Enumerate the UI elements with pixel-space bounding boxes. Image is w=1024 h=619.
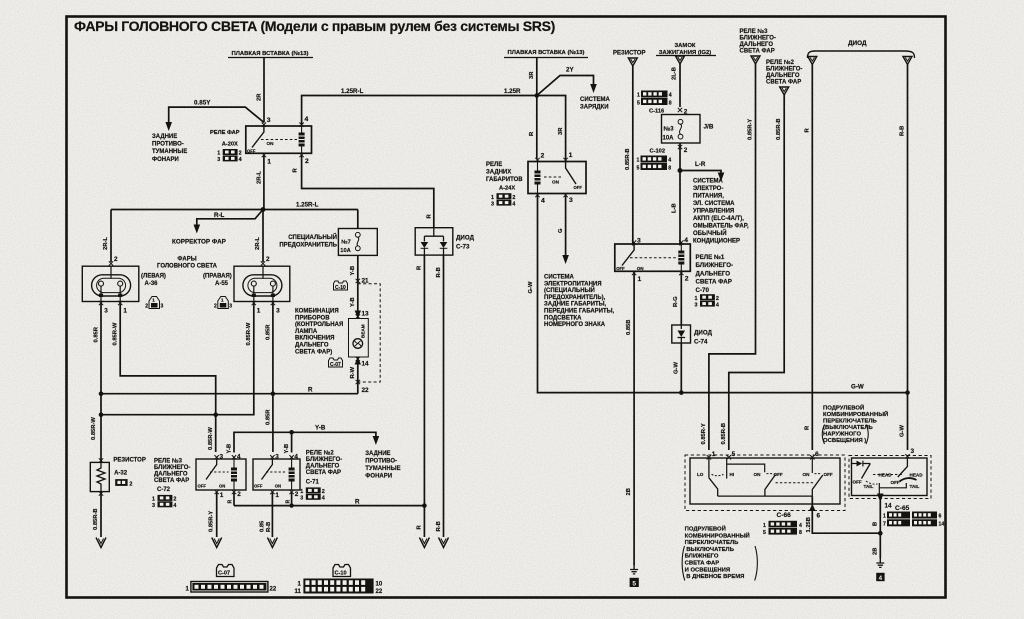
fusible link relay no3 label top [740,28,776,64]
diode C-74 [672,325,713,346]
connector icon C-72 [152,495,176,509]
svg-text:1: 1 [220,492,224,499]
wire 1.25R-L pin4 to junction [302,88,537,125]
wire 0.85R-Y fuse to switch pin1 [701,64,756,450]
ignition switch IG2 label [656,43,716,64]
label RELE no1 C-70 [696,254,734,294]
svg-text:OFF: OFF [853,480,862,485]
svg-text:ЗАРЯДКИ: ЗАРЯДКИ [580,105,609,111]
svg-text:4: 4 [684,237,688,244]
pin 2 relay no1 [679,271,689,283]
svg-text:ON: ON [275,483,281,488]
svg-text:ПРЕДОХРАНИТЕЛЬ),: ПРЕДОХРАНИТЕЛЬ), [544,295,606,301]
svg-text:4: 4 [512,201,515,207]
svg-text:22: 22 [270,587,277,593]
svg-text:ВЫКЛЮЧАТЕЛЬ: ВЫКЛЮЧАТЕЛЬ [686,547,735,553]
svg-text:22: 22 [376,589,383,595]
pin 3 relay A-20X [262,117,271,127]
svg-text:БЛИЖНЕГО-: БЛИЖНЕГО- [696,262,734,269]
svg-text:4: 4 [541,198,545,205]
svg-text:0.85R-Y: 0.85R-Y [701,423,707,444]
label fary golovnogo sveta [141,257,218,288]
resistor A-32 [90,458,109,495]
text power supply system left [544,275,615,329]
text rear fog lamps left [152,134,187,163]
pin 14 lamp bottom [356,357,369,368]
svg-text:5: 5 [732,451,736,458]
svg-text:A-24X: A-24X [499,186,515,192]
svg-text:1.25B: 1.25B [806,517,812,532]
wire 1.25B switch pin6 down [806,496,880,533]
headlamp left A-36 [82,266,139,301]
svg-text:0.85R-B: 0.85R-B [776,118,782,140]
svg-text:ФАРЫ: ФАРЫ [177,257,196,263]
node B junction [878,531,883,536]
svg-text:L-B: L-B [672,203,678,213]
svg-text:ЛАМПА: ЛАМПА [295,329,318,335]
svg-text:OFF: OFF [824,472,833,477]
node G-W R-B junction [905,390,910,395]
switch left contacts dimmer [697,458,812,496]
svg-text:4: 4 [879,575,883,582]
svg-text:2B: 2B [626,488,632,495]
svg-text:4: 4 [716,302,719,308]
svg-text:ON: ON [754,472,762,477]
svg-text:1: 1 [267,158,271,165]
svg-text:ON: ON [552,180,560,185]
diode bracket label top right [808,40,915,65]
svg-text:0.85R-B: 0.85R-B [93,508,99,530]
svg-text:УПРАВЛЕНИЯ: УПРАВЛЕНИЯ [693,209,734,215]
svg-text:В ДНЕВНОЕ ВРЕМЯ: В ДНЕВНОЕ ВРЕМЯ [686,574,744,580]
wire R-L branch to corrector [194,210,264,234]
svg-text:БЛИЖНЕГО-: БЛИЖНЕГО- [154,465,190,471]
svg-text:ДИОД: ДИОД [456,235,475,242]
wire 0.85R-B resistor to arrow [93,492,106,548]
bus Y-B relays to rear fog arrow [226,425,379,454]
connector C-116 [637,91,672,115]
svg-text:1.25R: 1.25R [504,88,521,95]
svg-text:3: 3 [267,117,271,124]
svg-text:OFF: OFF [891,480,900,485]
bus jog to relay no3 pin3 [99,303,254,417]
relay no2 pins [270,454,299,500]
pin 14 switch right bottom [873,494,893,532]
svg-text:1: 1 [152,298,155,303]
svg-text:J/B: J/B [704,124,714,131]
wire 2B to ground 4 [873,533,885,582]
wire L-R branch to systems [680,161,724,182]
svg-text:4: 4 [237,454,241,461]
connector badge A-36 [145,297,163,310]
svg-text:4: 4 [294,454,298,461]
svg-text:ON: ON [637,266,645,271]
wire R-W pin14 to pin22 [350,357,369,394]
svg-text:R-B: R-B [436,521,442,531]
svg-text:КОНДИЦИОНЕР: КОНДИЦИОНЕР [693,239,740,245]
svg-text:Y-B: Y-B [350,266,356,276]
bus R pin22 to left [99,387,358,397]
svg-text:OFF: OFF [574,185,583,190]
pin 6 switch [810,451,819,459]
svg-text:C-116: C-116 [649,109,664,115]
svg-text:OFF: OFF [247,148,256,153]
svg-text:(ЛЕВАЯ): (ЛЕВАЯ) [141,274,166,280]
pin 3 relay no1 [632,238,641,245]
svg-text:ОМЫВАТЕЛЬ ФАР,: ОМЫВАТЕЛЬ ФАР, [693,224,749,230]
headlamp right pins 1 and 3 [252,301,281,315]
svg-text:РЕЛЕ №1: РЕЛЕ №1 [696,254,725,261]
svg-text:1: 1 [883,514,886,520]
svg-text:OFF: OFF [198,484,207,489]
svg-text:БЛИЖНЕГО-: БЛИЖНЕГО- [766,67,802,73]
switch right contacts lighting [803,458,833,496]
svg-text:A-36: A-36 [145,281,159,287]
svg-text:0.85R-W: 0.85R-W [91,417,97,440]
pin 3 relay A-24X [563,193,573,204]
svg-text:22: 22 [362,387,370,394]
svg-text:TAIL: TAIL [910,484,920,489]
label pravaya A-55 [203,274,232,288]
svg-text:0.85R-W: 0.85R-W [208,427,214,450]
label RELE FAR A-20X [210,130,240,147]
svg-text:C-66: C-66 [777,512,792,519]
text podrulevoy switch outer lighting [823,404,888,445]
svg-text:ЗАДНИЕ: ЗАДНИЕ [152,134,177,140]
connector icon A-20X 1-2/3-4 [217,149,241,163]
svg-text:СВЕТА ФАР: СВЕТА ФАР [154,478,189,484]
svg-text:C-72: C-72 [157,487,171,493]
svg-text:СПЕЦИАЛЬНЫЙ: СПЕЦИАЛЬНЫЙ [288,233,337,241]
svg-text:LO: LO [697,472,704,477]
wire R-B diode bracket down [900,65,908,393]
svg-text:3: 3 [569,197,573,204]
svg-text:ФОНАРИ: ФОНАРИ [152,157,179,163]
svg-text:НОМЕРНОГО ЗНАКА: НОМЕРНОГО ЗНАКА [544,322,606,328]
pin 1 relay A-20X [262,153,272,166]
text kombinaciya priborov [295,309,343,356]
pin 4 relay no1 [679,237,688,245]
svg-text:R-B: R-B [266,522,272,532]
relay no3 box [196,459,246,490]
svg-text:C-71: C-71 [306,480,320,486]
parens lower switch label [682,546,757,581]
svg-text:13: 13 [362,311,370,318]
svg-text:Y-B: Y-B [284,444,290,454]
svg-text:G: G [558,228,564,233]
svg-text:ОБЫЧНЫЙ: ОБЫЧНЫЙ [693,229,727,237]
svg-text:10A: 10A [340,248,350,254]
svg-text:1: 1 [638,276,642,283]
combination switch right dashed box [849,456,931,499]
svg-text:ДИОД: ДИОД [694,330,713,337]
svg-text:4: 4 [669,93,672,99]
svg-text:G-W: G-W [851,384,864,391]
svg-text:1: 1 [221,298,224,303]
svg-text:1: 1 [695,296,698,302]
svg-text:2R-L: 2R-L [255,237,261,250]
svg-text:2R: 2R [257,93,263,101]
svg-text:7: 7 [883,521,886,527]
svg-text:ЗАДНИЕ ГАБАРИТЫ,: ЗАДНИЕ ГАБАРИТЫ, [544,302,607,308]
svg-text:СВЕТА ФАР: СВЕТА ФАР [740,49,775,55]
svg-text:СВЕТА ФАР: СВЕТА ФАР [766,80,801,86]
svg-text:0.85R: 0.85R [265,324,271,340]
connector badge C-07 bottom [217,565,235,577]
svg-text:ПОДСВЕТКА: ПОДСВЕТКА [544,315,582,321]
svg-text:TAIL: TAIL [864,484,874,489]
svg-text:ЗАДНИЕ: ЗАДНИЕ [365,451,390,457]
special fuse no7 10A [338,210,377,256]
svg-text:1.25R-L: 1.25R-L [296,202,319,209]
svg-text:1: 1 [637,158,640,164]
svg-text:1: 1 [152,497,155,503]
svg-text:КОМБИНИРОВАННЫЙ: КОМБИНИРОВАННЫЙ [823,410,888,418]
pin 1 switch [707,451,716,459]
svg-text:3: 3 [911,448,915,455]
svg-text:R-G: R-G [673,296,679,307]
svg-text:BEAM: BEAM [361,324,366,338]
svg-text:РЕЗИСТОР: РЕЗИСТОР [113,458,145,464]
svg-text:ПРОТИВО-: ПРОТИВО- [365,459,397,465]
svg-text:0.85R-Y: 0.85R-Y [209,511,215,532]
svg-text:2Y: 2Y [566,67,574,74]
svg-text:№3: №3 [664,126,675,133]
svg-text:РЕЛЕ №3: РЕЛЕ №3 [154,458,183,465]
wire R-G relay no1 pin2 to diode C-74 [673,273,681,325]
svg-text:HI: HI [730,472,735,477]
svg-text:8: 8 [799,530,802,536]
svg-text:№7: №7 [341,240,351,246]
svg-text:6: 6 [817,513,821,520]
svg-text:ФАРЫ ГОЛОВНОГО СВЕТА (Модели с: ФАРЫ ГОЛОВНОГО СВЕТА (Модели с правым ру… [74,18,555,34]
svg-text:СВЕТА ФАР): СВЕТА ФАР) [295,349,332,355]
svg-text:(ПРАВАЯ): (ПРАВАЯ) [203,274,232,280]
svg-text:1: 1 [569,152,573,159]
svg-text:ЭЛЕКТРО-: ЭЛЕКТРО- [693,186,723,192]
bus R lower [234,499,427,508]
svg-text:2: 2 [129,481,132,487]
svg-text:0.85B: 0.85B [626,320,632,335]
relay A-24X tail lamps relay box [528,162,586,194]
wire R pin2 to diode C-73 [293,155,434,228]
svg-text:C-10: C-10 [335,285,346,291]
svg-text:СВЕТА ФАР: СВЕТА ФАР [685,561,720,567]
svg-text:3R: 3R [558,127,564,135]
svg-text:C-10: C-10 [335,571,347,577]
label RELE ZADNIH GABARITOV A-24X [486,162,523,192]
svg-text:ДАЛЬНЕГО: ДАЛЬНЕГО [766,73,800,79]
wire 2R-L node to headlamp right pin2 [255,210,270,266]
svg-text:БЛИЖНЕГО-: БЛИЖНЕГО- [306,457,342,463]
svg-text:ПЛАВКАЯ ВСТАВКА (№13): ПЛАВКАЯ ВСТАВКА (№13) [508,49,585,56]
wire G-W diode C-74 to bus [673,343,683,395]
svg-text:ЭЛЕКТРОПИТАНИЯ: ЭЛЕКТРОПИТАНИЯ [544,281,602,287]
svg-text:0.85R-W: 0.85R-W [246,322,252,345]
svg-text:3: 3 [695,302,698,308]
svg-text:1: 1 [257,308,261,315]
connector badge C-07 small [329,358,343,368]
connector C-10 rows [295,579,383,596]
pin 2 above fuse box [678,108,688,116]
svg-text:3: 3 [637,238,641,245]
label RELE no2 C-71 [306,450,342,486]
wire 0.85R headlamp right pin3 to relay no2 pin3 [265,303,273,452]
svg-text:И ОСВЕЩЕНИЯ: И ОСВЕЩЕНИЯ [685,567,731,573]
svg-text:РЕЛЕ №3: РЕЛЕ №3 [740,28,769,35]
svg-text:2: 2 [173,497,176,503]
svg-text:ДАЛЬНЕГО: ДАЛЬНЕГО [154,472,188,478]
svg-text:R-L: R-L [214,212,225,219]
svg-text:(ВЫКЛЮЧАТЕЛЬ: (ВЫКЛЮЧАТЕЛЬ [823,425,873,431]
svg-text:2: 2 [266,256,270,263]
svg-text:2: 2 [716,296,719,302]
svg-text:3: 3 [229,304,232,310]
svg-text:С-74: С-74 [694,339,708,346]
svg-text:ДАЛЬНЕГО: ДАЛЬНЕГО [696,270,731,277]
svg-text:3: 3 [276,308,280,315]
svg-text:2: 2 [114,256,118,263]
svg-text:НАРУЖНОГО: НАРУЖНОГО [823,432,861,438]
switch mid contacts passing [754,472,814,496]
svg-text:ПЕРЕКЛЮЧАТЕЛЬ: ПЕРЕКЛЮЧАТЕЛЬ [685,540,740,546]
svg-text:С-70: С-70 [696,287,710,294]
text podrulevoy switch low beam drl [685,525,750,581]
svg-text:ПЕРЕКЛЮЧАТЕЛЬ: ПЕРЕКЛЮЧАТЕЛЬ [823,419,878,425]
svg-text:0.85R: 0.85R [265,409,271,425]
svg-text:3: 3 [220,454,224,461]
svg-text:ФОНАРИ: ФОНАРИ [365,474,392,480]
svg-text:0.85R-B: 0.85R-B [721,423,727,445]
wire 3R fuse13 to junction [504,58,537,96]
fusible link label no.13 middle [504,49,588,58]
svg-text:1: 1 [217,151,220,157]
svg-text:ПРИБОРОВ: ПРИБОРОВ [295,315,330,321]
wire G relay A-24X pin3 arrow down [558,195,569,264]
svg-text:2: 2 [145,304,148,310]
relay no2 box [253,459,300,490]
text rear fog lamps right [365,451,400,480]
svg-text:Y-B: Y-B [315,425,326,432]
wire 2R fuse13 to relay A-20X pin3 [257,58,265,123]
svg-text:(СПЕЦИАЛЬНЫЙ: (СПЕЦИАЛЬНЫЙ [544,286,595,294]
pin 5 switch [727,451,736,459]
ground 5 [630,564,639,588]
pin 1 relay no1 [632,271,642,283]
relay no1 low-high beam box [615,244,691,271]
connector icon C-71 [300,487,324,501]
svg-text:5: 5 [637,166,640,172]
svg-text:A-55: A-55 [215,281,229,287]
svg-text:ДИОД: ДИОД [848,40,867,47]
svg-text:КОМБИНИРОВАННЫЙ: КОМБИНИРОВАННЫЙ [685,531,750,539]
connector C-66 blocks [763,521,802,536]
wire 0.85R-B resistor to relay no1 pin3 [625,66,633,246]
svg-text:РЕЛЕ ФАР: РЕЛЕ ФАР [210,130,240,136]
wire 0.85Y branch to rear fog lamps [165,100,264,131]
svg-text:R-B: R-B [900,126,906,136]
bus 1.25R-L node to fuse no7 [111,202,358,212]
svg-text:HEAD: HEAD [910,472,924,477]
svg-text:ВКЛЮЧЕНИЯ: ВКЛЮЧЕНИЯ [295,336,335,342]
wire 0.85R headlamp left pin3 down [91,303,101,462]
connector badge C-10 small [334,281,348,291]
svg-text:ON: ON [267,141,275,146]
svg-text:ЭЛ. СИСТЕМА: ЭЛ. СИСТЕМА [693,201,735,207]
svg-text:1: 1 [275,492,279,499]
wire R relay no3 pin2 to bus [228,492,234,506]
svg-text:КОМБИНАЦИЯ: КОМБИНАЦИЯ [295,309,339,315]
svg-text:ПЕРЕДНИЕ ГАБАРИТЫ,: ПЕРЕДНИЕ ГАБАРИТЫ, [544,309,615,315]
svg-text:ON: ON [803,472,811,477]
svg-text:2L-B: 2L-B [672,67,678,80]
svg-text:8: 8 [668,166,671,172]
svg-text:14: 14 [939,521,945,527]
combination switch right solid box [852,458,928,496]
svg-text:C-07: C-07 [330,362,341,368]
svg-text:R-B: R-B [436,267,442,277]
wire 2Y branch to charging system [537,67,597,96]
svg-text:B: B [873,522,879,526]
svg-text:0.85R-W: 0.85R-W [113,322,119,345]
svg-text:2: 2 [541,153,545,160]
wire R junction to relay A-24X pin2 [529,96,537,160]
wire R-B diode C-73 right leg to arrow [436,255,449,547]
text power systems right column [693,179,749,245]
wire Y-B fuse no7 to pin21 [350,255,369,284]
svg-text:3: 3 [300,496,303,502]
connector C-07 row [186,582,277,593]
wire 0.85B relay no1 pin1 down to ground 5 [626,273,634,565]
svg-text:4: 4 [173,503,176,509]
svg-text:10: 10 [376,582,383,588]
svg-text:АКПП (ELC-4A/T),: АКПП (ELC-4A/T), [693,216,744,222]
pin 4 relay A-20X [299,116,308,127]
pin 4 relay A-24X [535,193,545,205]
svg-text:0.85R: 0.85R [93,326,99,342]
svg-text:ГАБАРИТОВ: ГАБАРИТОВ [486,177,523,183]
text charging system [580,97,610,111]
label RELE no3 C-72 [154,458,190,494]
wire 2R-L pin1 down to node [256,155,264,210]
svg-text:2R-L: 2R-L [103,237,109,250]
wire 0.85R-W headlamp left pin1 jog down [113,303,216,452]
svg-text:ДАЛЬНЕГО: ДАЛЬНЕГО [740,42,774,48]
svg-text:2: 2 [214,304,217,310]
svg-text:4: 4 [799,523,802,529]
svg-text:2B: 2B [873,548,879,555]
svg-text:РЕЛЕ №2: РЕЛЕ №2 [766,59,795,66]
svg-text:ДАЛЬНЕГО: ДАЛЬНЕГО [306,464,340,470]
svg-text:14: 14 [362,361,370,368]
connector icon A-24X [491,193,515,207]
svg-text:0.85R-Y: 0.85R-Y [748,119,754,140]
svg-text:1.25R-L: 1.25R-L [341,88,364,95]
svg-text:A-32: A-32 [114,471,128,477]
svg-text:ТУМАННЫЕ: ТУМАННЫЕ [152,149,187,155]
wire R diode C-73 left leg to arrow [417,255,430,547]
svg-text:5: 5 [632,580,636,587]
svg-text:A-20X: A-20X [222,141,238,147]
wire 3R junction right to relay A-24X pin1 [537,96,566,160]
svg-text:5: 5 [637,101,640,107]
svg-text:БЛИЖНЕГО: БЛИЖНЕГО [685,554,719,560]
connector badge A-55 [214,297,232,310]
svg-text:2: 2 [685,276,689,283]
svg-text:2: 2 [322,489,325,495]
svg-text:4: 4 [239,157,242,163]
connector icon C-70 [695,294,719,308]
